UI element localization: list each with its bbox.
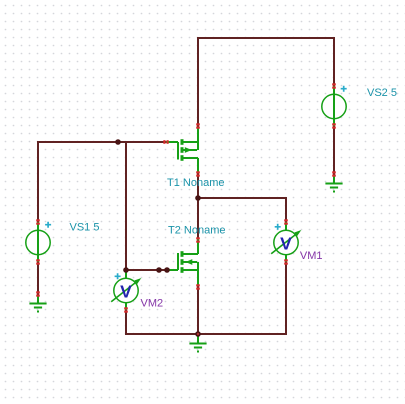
wire VS2 bottom to ground xyxy=(333,126,335,174)
transistor T1 xyxy=(166,127,198,174)
pin mark VS1 ground xyxy=(36,291,40,293)
junction on VS1 gate wire xyxy=(115,139,121,145)
pin mark T2 source xyxy=(196,284,200,286)
wire T1 drain to top rail xyxy=(197,38,199,126)
pin mark VS2 ground xyxy=(332,171,336,173)
wire VS1 top lead xyxy=(37,142,39,222)
wire branch down to VM2 node xyxy=(125,142,127,270)
svg-text:T2 Noname: T2 Noname xyxy=(168,225,225,237)
junction near T2 gate (left) xyxy=(156,267,162,273)
voltmeter VM1 xyxy=(271,222,301,262)
pin mark VS1 bottom xyxy=(36,259,40,261)
pin mark T1 source xyxy=(196,171,200,173)
pin mark T1 gate xyxy=(163,140,165,144)
wire VS1 to T1 gate xyxy=(38,141,166,143)
svg-text:T1 Noname: T1 Noname xyxy=(167,177,224,189)
voltmeter VM2 xyxy=(111,270,141,310)
svg-text:VS1 5: VS1 5 xyxy=(70,222,100,234)
junction VM2 top node xyxy=(123,267,129,273)
transistor T2 xyxy=(166,239,198,286)
junction at T2 gate pin xyxy=(164,267,170,273)
pin mark T2 drain xyxy=(196,237,200,239)
ground below VS2 xyxy=(325,175,342,192)
pin mark VM1 bottom xyxy=(284,259,288,261)
svg-text:V: V xyxy=(120,281,132,301)
pin mark VS2 top xyxy=(332,83,336,85)
wire VS1 bottom to ground xyxy=(37,262,39,294)
junction mid node xyxy=(195,195,201,201)
svg-text:VM2: VM2 xyxy=(141,298,164,310)
svg-text:VS2 5: VS2 5 xyxy=(367,87,397,99)
wire VM2 bottom lead xyxy=(125,310,127,334)
wire top rail xyxy=(198,37,334,39)
voltage source VS1 xyxy=(26,222,51,262)
ground at bottom center xyxy=(189,335,206,352)
pin mark VS1 top xyxy=(36,219,40,221)
svg-text:V: V xyxy=(280,233,292,253)
pin mark VS2 bottom xyxy=(332,123,336,125)
wire T2 source down xyxy=(197,286,199,334)
pin mark VM1 top xyxy=(284,219,288,221)
svg-text:VM1: VM1 xyxy=(300,250,323,262)
wire VM1 bottom lead xyxy=(285,262,287,334)
wire bottom rail xyxy=(126,333,286,335)
wire T1 source to T2 drain xyxy=(197,174,199,238)
wire mid node to VM1 xyxy=(198,198,286,222)
ground below VS1 xyxy=(29,295,46,312)
wire VM2 node to T2 gate xyxy=(126,269,166,271)
wire VS2 top lead xyxy=(333,38,335,86)
junction bottom ground node xyxy=(195,331,201,337)
pin mark VM2 bottom xyxy=(124,307,128,309)
pin mark T1 drain xyxy=(196,123,200,125)
voltage source VS2 xyxy=(322,86,347,126)
